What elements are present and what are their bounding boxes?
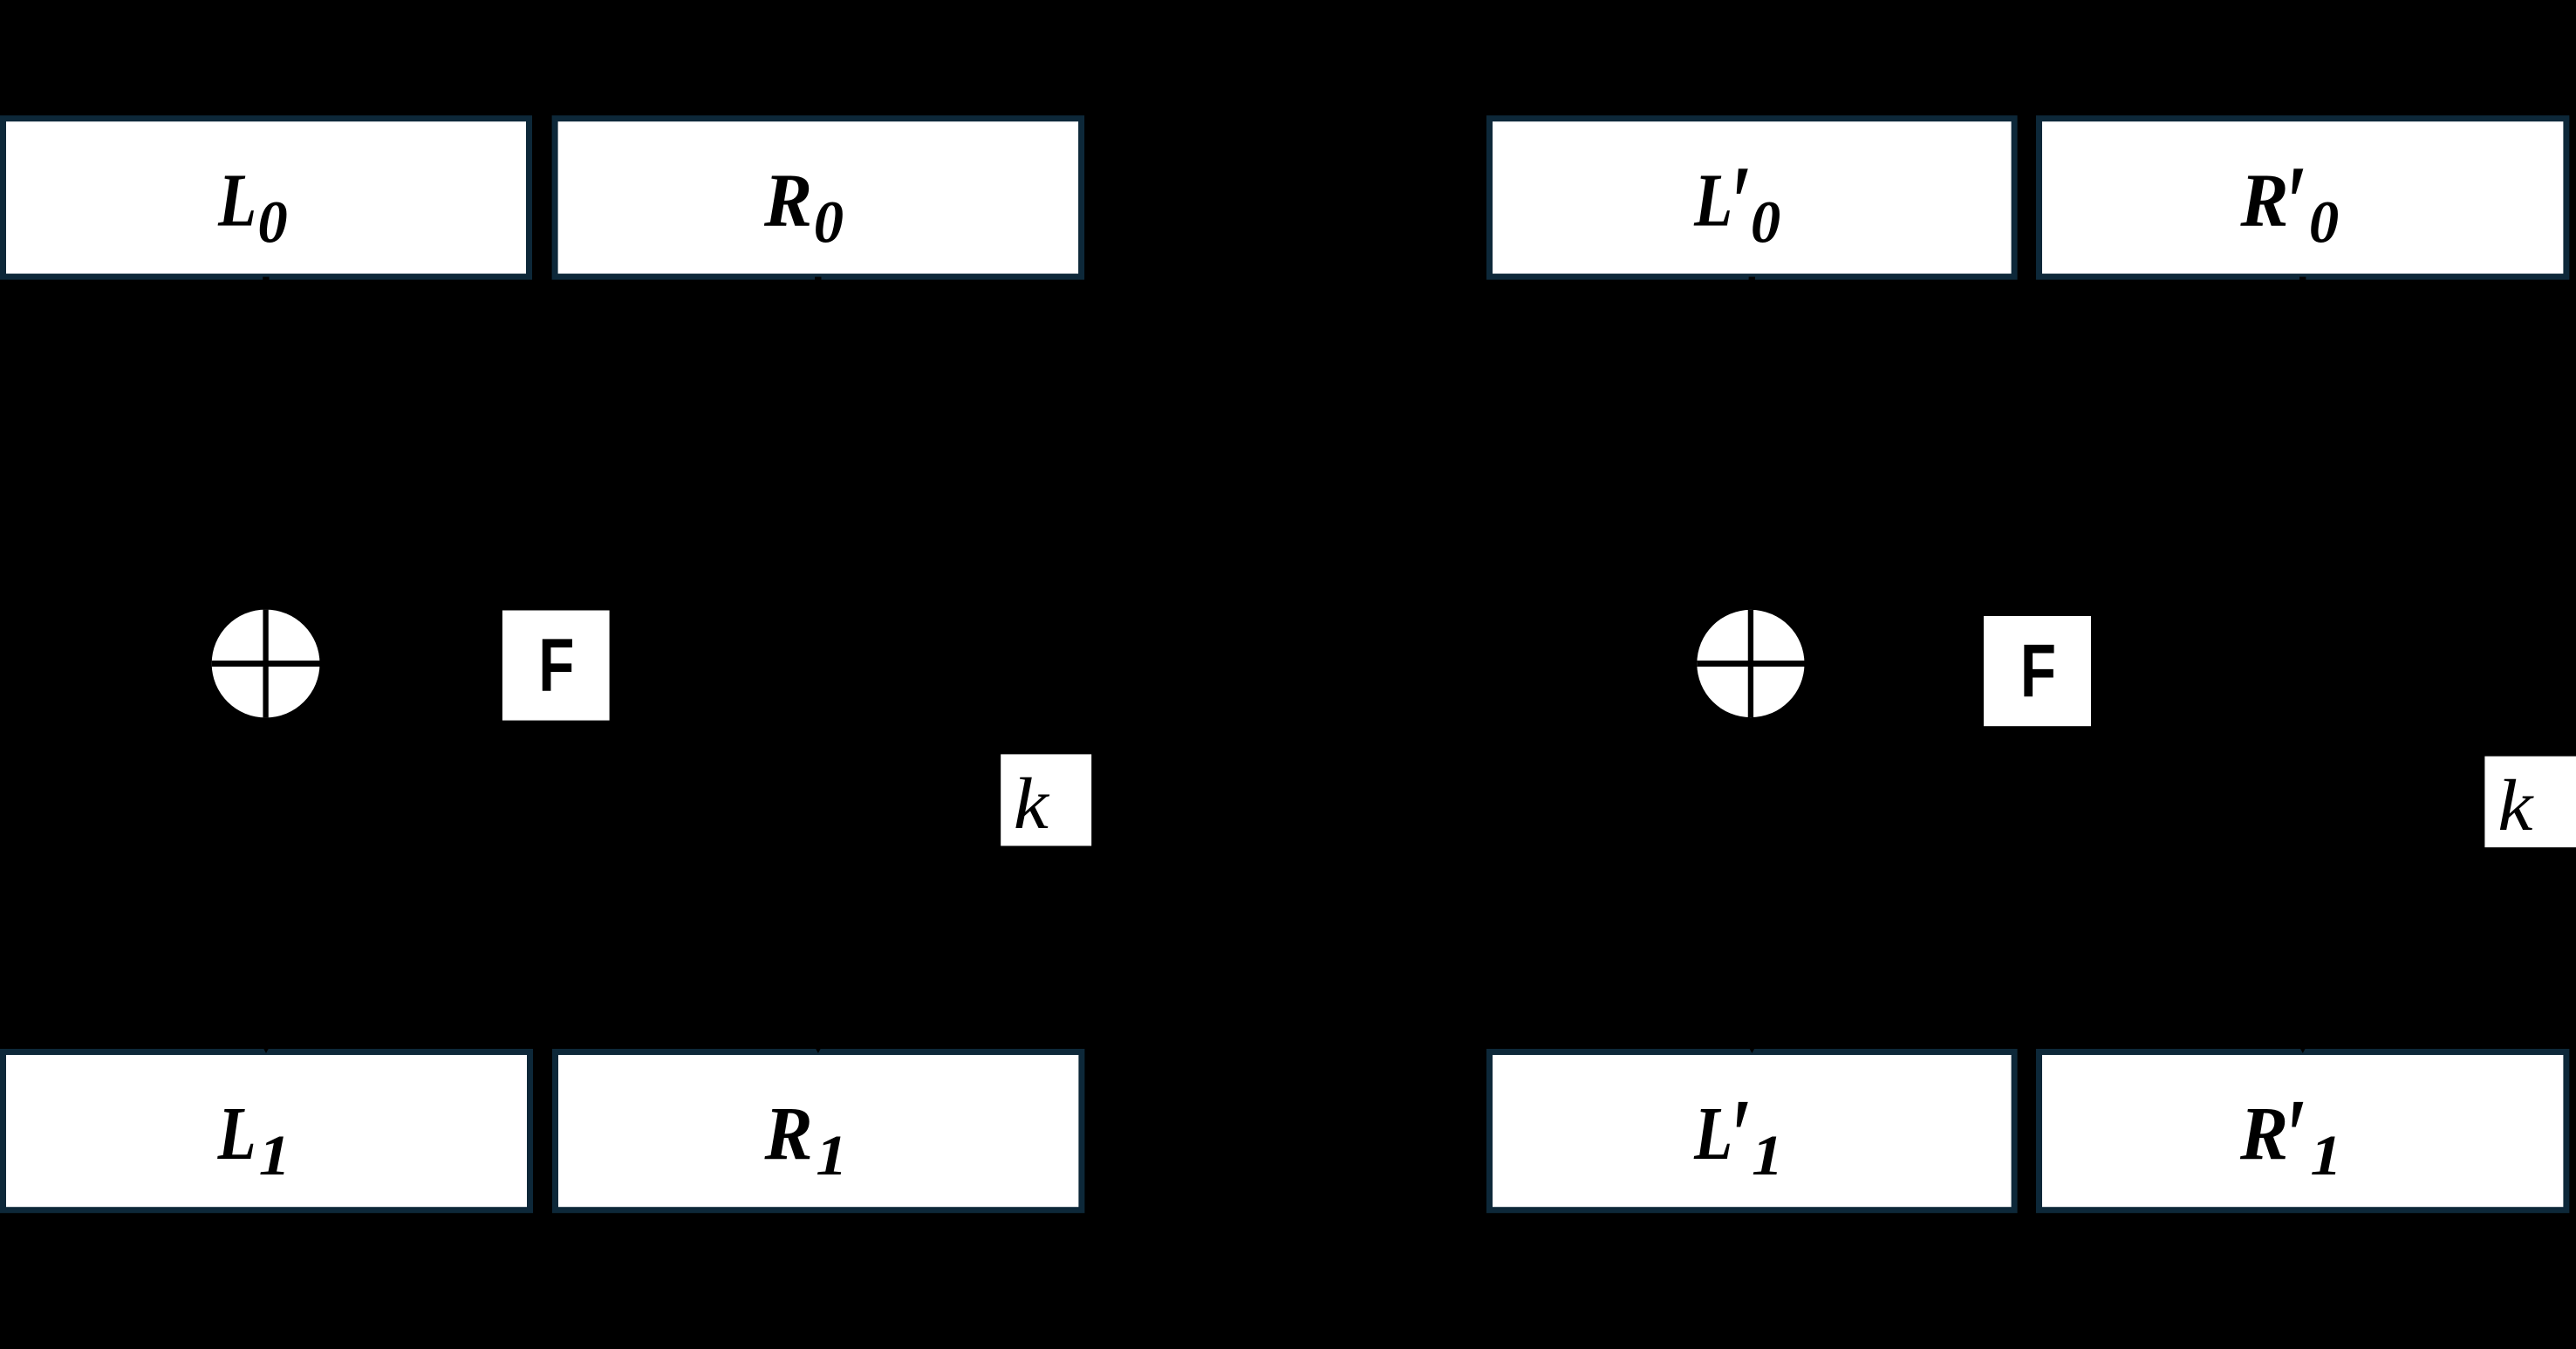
svg-text:F: F [2020,630,2056,714]
label R0 [763,159,844,256]
register box R'1 [2040,1052,2566,1210]
svg-text:′: ′ [1731,1077,1752,1195]
svg-text:L: L [217,1092,256,1176]
register box L'0 [1490,119,2015,277]
label R'1 [2239,1077,2342,1195]
svg-text:1: 1 [1752,1124,1783,1188]
svg-text:′: ′ [1731,144,1752,262]
register box L0 [3,119,530,277]
key box right [2484,757,2576,847]
register box R1 [556,1052,1082,1210]
svg-text:L: L [1693,1092,1732,1176]
svg-text:0: 0 [2309,189,2339,256]
svg-text:1: 1 [816,1124,847,1188]
key box left [1001,754,1091,846]
wire stub through R0 bottom border [815,277,821,281]
svg-text:0: 0 [814,189,844,256]
svg-text:k: k [2497,764,2534,846]
svg-text:′: ′ [2286,144,2306,262]
label L'0 [1693,144,1780,262]
svg-text:′: ′ [2286,1077,2306,1195]
arrowhead tip into L'1 top border [1750,1049,1754,1053]
F function box right [1984,616,2091,726]
svg-text:L: L [217,159,256,243]
arrowhead tip into R1 top border [816,1049,820,1053]
svg-text:L: L [1693,159,1732,243]
svg-text:R: R [764,1092,813,1175]
register box R0 [555,119,1082,277]
svg-text:0: 0 [257,189,287,256]
svg-text:1: 1 [259,1124,290,1188]
svg-text:R: R [2239,1092,2288,1175]
label L'1 [1693,1077,1783,1195]
wire stub through R'0 bottom border [2299,277,2306,281]
wire stub through L'0 bottom border [1749,277,1755,281]
svg-text:R: R [763,159,812,243]
arrowhead tip into L1 top border [263,1049,268,1053]
register box L1 [3,1052,530,1210]
svg-text:F: F [538,624,574,708]
svg-text:R: R [2239,159,2288,243]
register box R'0 [2040,119,2566,277]
wire stub through L0 bottom border [263,277,269,281]
register box L'1 [1490,1052,2015,1210]
label L0 [217,159,287,256]
label R1 [764,1092,848,1188]
svg-text:1: 1 [2310,1124,2341,1188]
svg-text:0: 0 [1751,189,1780,256]
xor node left [212,610,320,718]
xor node right [1697,610,1804,717]
F function box left [502,611,610,721]
label L1 [217,1092,290,1188]
label R'0 [2239,144,2339,262]
arrowhead tip into R'1 top border [2300,1049,2305,1053]
svg-text:k: k [1014,763,1050,844]
